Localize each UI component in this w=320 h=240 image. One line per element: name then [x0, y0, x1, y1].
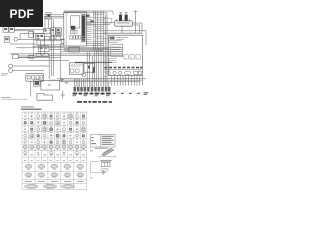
connector P9 faint box left of pump: [104, 19, 112, 24]
right-end terminal note text: [144, 92, 149, 95]
legend row 2 labels: [24, 118, 85, 121]
pump brush B2 (dark): [125, 15, 128, 21]
ignition switch SW1 group (x44-66, y27-41): [44, 28, 62, 41]
note box N1: [91, 135, 116, 148]
wires: left feed lines into U3: [10, 48, 123, 61]
connector P7 small box: [29, 55, 33, 59]
connector P3 on U1 left edge: [61, 39, 64, 44]
resistor R9 (tall dark): [93, 67, 95, 73]
block U1: main control unit outline: [64, 12, 87, 46]
ignition coil T1 with hatching: [69, 63, 83, 74]
pump terminal stubs: [117, 12, 130, 21]
fuse strip FB2 (center, y74-81): [26, 74, 44, 82]
terminal strip X1: vertical drops: [74, 48, 142, 87]
connector row P8 inside U3 lower: [124, 55, 140, 59]
connector P6 label text: [60, 79, 68, 83]
tiny caption below: [90, 176, 93, 179]
resistor network RN1 small ticks: [109, 58, 117, 62]
legend row 3 labels: [24, 125, 85, 128]
wire: horizontal links to right column: [64, 23, 146, 51]
small text label left: [1, 72, 8, 75]
wire: verticals from SW1 down: [44, 15, 64, 79]
box U4 below U1: [69, 47, 79, 52]
capacitor C7 (dark): [88, 66, 90, 69]
relay K5 (small box top-left in U3): [110, 36, 115, 39]
switch S1: left cluster box B: [4, 37, 18, 43]
wire: long feed lines above terminal row: [49, 79, 146, 82]
terminal labels row (tiny text): [73, 93, 111, 95]
distributor box A2: [84, 63, 95, 72]
bracket module M2 (notched box): [37, 93, 53, 100]
legend row 12 flat pill connectors: [25, 185, 75, 189]
legend row 1 connector icons: [24, 115, 85, 118]
legend row 4 labels: [24, 131, 85, 134]
crosshair symbol F5: [101, 170, 106, 175]
fuse box FB1: center-left: [39, 46, 50, 52]
relay K1: left cluster box A: [3, 27, 14, 32]
connector P2 small box with dark square: [46, 12, 51, 19]
IC U2: pin-name text column: [86, 18, 92, 42]
wire: pump right side loop: [122, 23, 142, 33]
wire ties in center bus: [94, 15, 109, 42]
legend row 2 connector icons: [24, 121, 85, 125]
wire rows inside U3: [108, 41, 121, 43]
wire: vertical harness bus center-right: [94, 11, 107, 84]
diode D1 dark body: [86, 15, 89, 17]
legend row 8 sparse marks: [24, 159, 84, 162]
legend row 1 labels: [24, 112, 85, 115]
terminal strip X1: connector bodies: [74, 87, 111, 92]
legend row 10 large pill connectors: [25, 173, 84, 178]
bracket figure F3 (hatched): [100, 160, 111, 166]
dark connector P5 left of K6: [34, 80, 40, 86]
relay K2: center-left boxes: [29, 31, 45, 40]
terminal squares row inside U1: [70, 36, 81, 39]
block U3: right junction block outline: [108, 35, 142, 75]
wire: top horizontal bus to fuel pump: [64, 11, 137, 34]
PDF badge: [0, 0, 43, 27]
indicator lamps L1..L4 row: [107, 71, 142, 75]
capacitor C1 (dark element inside U1): [71, 26, 75, 30]
relay box K6 (large blank box): [41, 80, 60, 90]
wire: left cluster to center: [10, 16, 64, 56]
spark plug symbol E1: [82, 73, 86, 77]
fuse row F1..F8: dark dash band: [105, 67, 143, 69]
sensor G1: two small circles left: [9, 64, 49, 73]
wire: FB2 drop to M2: [30, 81, 32, 96]
wire: heavy feed line y62: [75, 61, 112, 63]
legend table grid: [22, 112, 87, 190]
connector J1: dark hatched pin column: [81, 14, 85, 42]
fuel pump M1: body: [115, 21, 133, 26]
block U1 inner module: [70, 16, 79, 28]
dimension line F2: [99, 156, 115, 158]
pump brush B1 (dark): [119, 15, 122, 21]
legend title text: [21, 106, 34, 107]
legend row 11 label strip: [25, 180, 84, 183]
pump label text: [117, 22, 130, 23]
wire rungs on left bus: [103, 57, 107, 76]
terminal block TB1 inside U3: [111, 45, 123, 57]
legend row 9 large pill connectors: [25, 165, 84, 170]
left bottom tiny text: [2, 96, 11, 99]
legend row 6 oval connector icons: [23, 146, 85, 150]
resistor R7 dark body: [90, 20, 93, 22]
legend row 5 connector icons: [24, 141, 85, 145]
wire stubs inside U3 top: [103, 33, 142, 39]
small parts row near (36-49,53): [36, 53, 49, 56]
svg-text:PDF: PDF: [9, 7, 34, 21]
bracket figure F4: [101, 168, 109, 171]
legend row 5 labels: [24, 138, 85, 141]
legend row 7 sparse marks: [24, 154, 85, 157]
wire: K2 drops: [37, 41, 45, 56]
legend row 4 connector icons: [24, 134, 85, 138]
relay K3 contacts row inside U1: [70, 30, 73, 33]
lever figure F1: hatched parallelogram: [90, 148, 114, 156]
legend row 3 connector icons: [24, 127, 85, 131]
wire W9 (left L-bracket): [91, 162, 101, 173]
sensor unit B3: small box top: [12, 55, 49, 59]
note box caption: [95, 147, 108, 150]
second terminal label line: [77, 101, 112, 103]
ground symbol GND1: [61, 91, 65, 99]
